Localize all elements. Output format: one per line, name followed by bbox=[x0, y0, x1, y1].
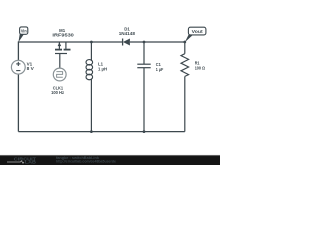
wire V1 bottom lead bbox=[17, 74, 19, 132]
capacitor C1 bbox=[137, 41, 163, 133]
svg-text:100 Hz: 100 Hz bbox=[51, 90, 64, 95]
wire C1 top lead bbox=[143, 41, 145, 64]
footer bar bbox=[0, 155, 220, 165]
node junction dot Vout bbox=[183, 41, 186, 44]
node junction dot C1 top bbox=[143, 41, 146, 44]
wire L1 top lead bbox=[90, 41, 92, 61]
wire R1 bottom lead bbox=[184, 76, 186, 131]
svg-text:LAB: LAB bbox=[25, 160, 36, 165]
wire R1 top lead bbox=[184, 41, 186, 53]
clock source CLK1 bbox=[51, 54, 66, 96]
transistor M1 (PMOS IRF9530) bbox=[52, 28, 74, 54]
svg-text:8 V: 8 V bbox=[27, 66, 35, 71]
svg-text:1 µH: 1 µH bbox=[98, 66, 108, 71]
inductor L1 bbox=[86, 41, 108, 133]
svg-text:http://circuitlab.com/ce48ba5u: http://circuitlab.com/ce48ba5userde bbox=[56, 160, 116, 164]
node junction dot C1 bottom bbox=[143, 130, 146, 133]
node Vin flag bbox=[18, 27, 27, 42]
voltage source V1 bbox=[11, 60, 34, 74]
wire L1 bottom lead bbox=[90, 79, 92, 132]
svg-text:1 µF: 1 µF bbox=[156, 67, 164, 72]
diode D1 (1N4148) bbox=[119, 26, 136, 45]
svg-text:Vout: Vout bbox=[192, 29, 204, 34]
svg-text:1N4148: 1N4148 bbox=[119, 31, 136, 36]
node junction dot L1 bottom bbox=[90, 130, 93, 133]
svg-text:IRF9530: IRF9530 bbox=[52, 33, 74, 38]
node junction dot L1 top bbox=[90, 41, 93, 44]
wire bottom rail bbox=[18, 131, 184, 133]
resistor R1 bbox=[181, 41, 205, 131]
wire M1 gate lead bbox=[59, 54, 61, 69]
svg-text:100 Ω: 100 Ω bbox=[195, 66, 206, 71]
svg-text:Vin: Vin bbox=[21, 29, 27, 34]
node Vout flag bbox=[183, 27, 205, 43]
wire top rail left (Vin node to D1 cathode) bbox=[18, 41, 122, 43]
wire C1 bottom lead bbox=[143, 68, 145, 132]
wire top rail right (D1 anode to Vout node) bbox=[130, 41, 185, 43]
wire V1 top lead bbox=[17, 41, 19, 60]
